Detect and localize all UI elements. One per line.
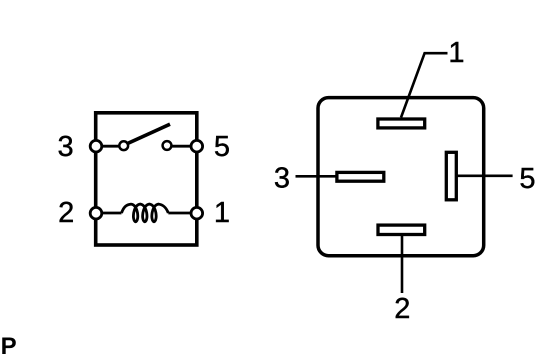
wire from fixed contact to terminal 5 bbox=[170, 145, 197, 148]
leader line pin 1 bbox=[401, 53, 448, 117]
switch blade bbox=[127, 124, 171, 144]
svg-text:1: 1 bbox=[214, 197, 230, 229]
svg-text:P: P bbox=[1, 333, 17, 357]
wire from coil to terminal 1 bbox=[168, 212, 197, 215]
leader line pin 5 bbox=[457, 175, 513, 178]
terminal 1 circle bbox=[191, 207, 203, 219]
svg-text:3: 3 bbox=[274, 163, 290, 195]
wire from terminal 2 to coil bbox=[96, 212, 122, 215]
terminal 2 circle bbox=[90, 207, 102, 219]
relay schematic box bbox=[96, 113, 197, 245]
svg-text:5: 5 bbox=[519, 163, 535, 195]
leader line pin 2 bbox=[401, 235, 404, 293]
svg-text:5: 5 bbox=[214, 131, 230, 163]
svg-text:2: 2 bbox=[394, 293, 410, 325]
pin slot 1 (top) bbox=[378, 119, 425, 128]
coil L bbox=[122, 204, 169, 222]
svg-text:1: 1 bbox=[448, 37, 464, 69]
wire from terminal 3 to movable contact bbox=[96, 145, 120, 148]
pin slot 2 (bottom) bbox=[378, 225, 425, 234]
pin slot 5 (right) bbox=[446, 152, 456, 200]
svg-text:3: 3 bbox=[58, 131, 74, 163]
svg-text:2: 2 bbox=[58, 197, 74, 229]
terminal 3 circle bbox=[90, 140, 102, 152]
leader line pin 3 bbox=[296, 175, 337, 178]
pin slot 3 (left) bbox=[337, 172, 384, 181]
switch movable contact circle bbox=[119, 141, 128, 150]
relay connector body outline bbox=[318, 98, 484, 256]
switch fixed contact circle bbox=[163, 141, 172, 150]
terminal 5 circle bbox=[191, 140, 203, 152]
